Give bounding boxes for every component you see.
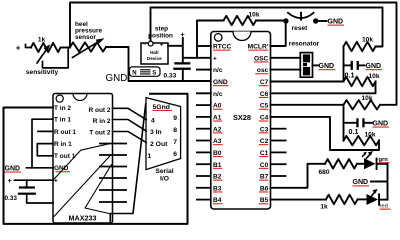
svg-text:+: +: [213, 55, 217, 62]
resistor heel pressure sensor body: [70, 42, 106, 51]
label + serial cap: [8, 176, 12, 185]
wire n/c pin stub 2: [197, 92, 211, 94]
svg-text:1k: 1k: [38, 36, 46, 43]
label GND main rail: [106, 73, 128, 84]
svg-text:B1: B1: [213, 162, 222, 169]
wires OSC osc to resonator: [271, 58, 301, 70]
label 10k first: [362, 37, 373, 44]
heel sensor arrow: [73, 38, 105, 57]
wire B6 to 680: [271, 164, 326, 188]
label 10k fourth: [364, 131, 375, 138]
svg-text:GND: GND: [353, 179, 369, 186]
label GND led: [353, 179, 370, 186]
label GND cap1: [366, 63, 383, 70]
svg-text:C7: C7: [260, 79, 269, 86]
svg-text:SX28: SX28: [233, 113, 251, 122]
resistor R-10k second: [344, 77, 376, 86]
svg-text:10k: 10k: [248, 12, 259, 19]
svg-text:C1: C1: [260, 150, 269, 157]
label 1k bottom: [320, 204, 328, 211]
svg-text:B7: B7: [260, 174, 269, 181]
wire 1k to red LED: [358, 198, 367, 200]
MAX233 internal art: [53, 144, 112, 218]
svg-text:MAX233: MAX233: [69, 214, 97, 223]
svg-text:S: S: [152, 70, 156, 76]
resistor R-680: [325, 159, 357, 168]
svg-text:GND: GND: [366, 63, 382, 70]
MAX233 U3 body: [53, 94, 113, 224]
switch reset: [288, 13, 314, 20]
svg-text:C2: C2: [260, 138, 269, 145]
LED red D2: [367, 189, 381, 206]
wire + terminal to pot: [26, 45, 32, 48]
wires MAX233 to DB9: [113, 108, 147, 142]
wire C7 pin: [271, 81, 344, 83]
wire C4 jog: [271, 117, 380, 150]
svg-text:B4: B4: [213, 197, 222, 204]
wire red LED to bus: [380, 199, 388, 201]
SX28 left pin labels: [213, 44, 232, 205]
wire B5 to 1k: [271, 199, 327, 201]
resistor R-1k bottom: [326, 195, 357, 204]
serial section enclosure box: [4, 94, 188, 224]
wire hall output up and across to right side: [151, 8, 383, 47]
svg-text:3 In: 3 In: [150, 129, 162, 136]
svg-text:T in 2: T in 2: [54, 105, 71, 112]
capacitor C-0.33 serial: [18, 180, 53, 203]
MAX233 right pin labels: [88, 107, 110, 137]
wire RTCC pin: [197, 45, 211, 47]
wire cap to gnd rail: [182, 70, 184, 81]
svg-text:resonator: resonator: [289, 41, 320, 48]
svg-text:+: +: [8, 176, 12, 185]
label GND cap2: [373, 120, 390, 127]
label sensitivity: [26, 69, 59, 76]
wire T in 1 to gnd: [32, 119, 53, 168]
svg-text:Hall: Hall: [150, 50, 158, 55]
label 0.33 main: [164, 73, 177, 80]
label 10k second: [368, 73, 379, 80]
wire n/c pin stub 1: [197, 69, 211, 71]
svg-text:I/O: I/O: [160, 176, 169, 183]
label GND resonator: [319, 63, 336, 70]
svg-text:B3: B3: [213, 185, 222, 192]
svg-text:R in 1: R in 1: [54, 141, 72, 148]
svg-text:0.1: 0.1: [349, 127, 359, 136]
DB9 left pin labels: [148, 104, 173, 160]
svg-text:n/c: n/c: [213, 91, 223, 98]
label step position: [148, 26, 173, 40]
wire GND led to bus: [371, 181, 388, 183]
magnet N-S label box: [130, 67, 161, 77]
label grn: [379, 157, 390, 163]
svg-text:+: +: [16, 43, 21, 52]
svg-text:OSC: OSC: [254, 55, 269, 62]
svg-text:C0: C0: [260, 162, 269, 169]
svg-text:A2: A2: [213, 126, 222, 133]
label + rail: [180, 30, 185, 39]
svg-text:T in 1: T in 1: [54, 117, 71, 124]
label 0.33 serial: [5, 195, 18, 202]
wire reset to GND: [318, 20, 327, 22]
junction dot reset left: [283, 18, 288, 23]
label reset: [292, 25, 309, 32]
wire resonator to GND: [313, 64, 319, 66]
svg-text:10k: 10k: [361, 95, 372, 102]
svg-text:GND: GND: [5, 165, 21, 172]
svg-text:C4: C4: [260, 115, 269, 122]
svg-text:osc: osc: [257, 67, 269, 74]
label 1k: [38, 36, 46, 43]
wires SX28 C3-B7 stubs: [271, 129, 287, 176]
svg-text:R in 2: R in 2: [93, 118, 111, 125]
DB9 serial connector J1: [146, 98, 181, 170]
wire + rail: [168, 38, 211, 62]
hall sensor terminals - O +: [143, 41, 164, 48]
svg-text:A0: A0: [213, 103, 222, 110]
MAX233 left pin labels: [54, 105, 76, 185]
svg-text:C3: C3: [260, 126, 269, 133]
svg-text:2 Out: 2 Out: [150, 141, 168, 148]
wire grn LED to bus: [378, 163, 388, 165]
pot wiper arrow: [37, 44, 50, 63]
capacitor C-0.33 main plates: [173, 62, 191, 70]
svg-text:A3: A3: [213, 138, 222, 145]
svg-text:T out 2: T out 2: [89, 130, 111, 137]
wire C6 jog: [271, 82, 376, 94]
svg-text:sensor: sensor: [75, 34, 96, 41]
wire MCLR to reset: [271, 21, 286, 46]
svg-text:1k: 1k: [320, 204, 328, 211]
svg-text:n/c: n/c: [213, 67, 223, 74]
DB9 right pin labels: [173, 115, 177, 158]
svg-text:10k: 10k: [364, 131, 375, 138]
label Hall Device: [147, 50, 162, 61]
op IC U1 SX28 body: [211, 32, 271, 210]
wire divider junction to top rail and right side down to 10k-C5: [70, 3, 397, 105]
label 0.1 first: [345, 70, 355, 79]
svg-text:GND: GND: [319, 63, 335, 70]
svg-text:1: 1: [148, 153, 152, 160]
node + supply terminal: [16, 43, 21, 52]
svg-text:C6: C6: [260, 91, 269, 98]
svg-text:10k: 10k: [368, 73, 379, 80]
wire LED ground bus: [387, 164, 389, 200]
svg-text:4: 4: [151, 117, 155, 124]
resistor R-pot 1k body: [31, 43, 61, 52]
label Serial IO: [155, 168, 173, 183]
wires SX28 A0-B4 stubs: [196, 105, 211, 200]
resistor R-10k pullup: [197, 16, 286, 58]
wire C7 node vertical: [343, 47, 345, 82]
label resonator: [289, 41, 320, 48]
wire pot to junction: [61, 47, 71, 49]
svg-text:R out 1: R out 1: [54, 129, 76, 136]
label 10k pullup: [248, 12, 259, 19]
capacitor C-0.1 second: [344, 118, 373, 127]
svg-text:9: 9: [173, 115, 177, 122]
svg-text:8: 8: [173, 127, 177, 134]
svg-text:GND: GND: [328, 19, 344, 26]
label GND serial: [5, 165, 22, 172]
MAX233 right comb stubs: [99, 144, 127, 203]
wire 5Gnd drop to ground: [110, 104, 145, 223]
svg-text:−: −: [143, 42, 147, 48]
label MAX233: [69, 214, 97, 223]
svg-text:N: N: [132, 70, 136, 76]
resistor R-10k fourth: [344, 136, 380, 145]
wire 680 to grn LED: [357, 163, 364, 165]
svg-text:reset: reset: [292, 25, 309, 32]
svg-text:0.33: 0.33: [5, 195, 18, 202]
wire gnd row: [27, 167, 54, 169]
svg-text:+: +: [160, 41, 164, 48]
label SX28: [233, 113, 251, 122]
svg-text:MCLR': MCLR': [248, 44, 269, 51]
svg-text:GND: GND: [213, 79, 228, 86]
label GND reset: [328, 19, 345, 26]
svg-text:B5: B5: [260, 197, 269, 204]
resistor R-10k third: [344, 100, 380, 109]
resonator X1 body: [300, 53, 312, 78]
svg-text:5Gnd: 5Gnd: [153, 104, 170, 111]
wire C5 node vertical: [343, 105, 345, 141]
wire heel sensor to GND corner: [106, 47, 211, 81]
wire R in 1 T out 1 bracket: [37, 144, 53, 156]
svg-text:GND: GND: [373, 120, 389, 127]
wire pot wiper wrap: [43, 48, 69, 68]
svg-text:6: 6: [173, 151, 177, 158]
svg-text:RTCC: RTCC: [213, 44, 232, 51]
svg-text:0.33: 0.33: [164, 73, 177, 80]
svg-text:C5: C5: [260, 103, 269, 110]
capacitor C-0.1 first: [344, 61, 365, 70]
resistor R-10k first: [344, 42, 376, 51]
LED grn D1: [363, 151, 378, 170]
svg-text:B6: B6: [260, 185, 269, 192]
label 0.1 second: [349, 127, 359, 136]
svg-text:sensitivity: sensitivity: [26, 69, 59, 76]
hall sensor U2 box: [141, 43, 168, 64]
svg-text:B0: B0: [213, 150, 222, 157]
svg-text:B2: B2: [213, 174, 222, 181]
SX28 right pin labels: [248, 44, 269, 205]
svg-text:Serial: Serial: [155, 168, 173, 175]
wire + row: [15, 179, 54, 181]
wire R out 1 stub: [38, 130, 53, 132]
svg-text:R out 2: R out 2: [88, 107, 110, 114]
junction dot reset right: [313, 18, 318, 23]
label 10k third: [361, 95, 372, 102]
svg-text:680: 680: [318, 169, 329, 176]
label 680: [318, 169, 329, 176]
svg-text:A1: A1: [213, 115, 222, 122]
svg-text:10k: 10k: [362, 37, 373, 44]
label heel pressure sensor: [75, 21, 102, 41]
svg-text:7: 7: [173, 139, 177, 146]
wire C5 pin: [271, 104, 344, 106]
label red: [380, 204, 391, 210]
svg-text:GND: GND: [106, 73, 128, 84]
svg-text:position: position: [148, 32, 173, 39]
svg-text:Device: Device: [147, 56, 162, 61]
